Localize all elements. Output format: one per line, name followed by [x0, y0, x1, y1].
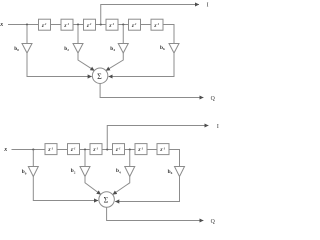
wire tap down to b0-bot — [32, 150, 34, 167]
svg-text:b4: b4 — [110, 46, 115, 52]
svg-text:b2: b2 — [64, 46, 69, 52]
multiplier b6 (triangle) — [169, 44, 179, 54]
svg-text:z-1: z-1 — [115, 146, 121, 153]
svg-text:z-1: z-1 — [153, 22, 159, 29]
wire S1 to Q output (top) — [100, 83, 203, 97]
delay U10 z^-1 — [113, 144, 125, 155]
wire U2 to U3 — [73, 24, 84, 26]
delay U8 z^-1 — [68, 144, 80, 155]
svg-text:z-1: z-1 — [108, 22, 114, 29]
multiplier b2-bot (triangle) — [80, 167, 90, 177]
svg-text:z-1: z-1 — [131, 22, 137, 29]
wire U12 output to b6 corner (bottom) — [169, 150, 180, 167]
delay U11 z^-1 — [135, 144, 147, 155]
wire input to U1 — [8, 24, 39, 26]
multiplier b4-bot (triangle) — [125, 167, 135, 177]
svg-text:I: I — [217, 124, 219, 130]
svg-text:b4: b4 — [116, 168, 121, 174]
delay U2 z^-1 — [61, 19, 73, 30]
wire input to U7 — [12, 149, 46, 151]
svg-text:Σ: Σ — [97, 72, 102, 81]
svg-text:z-1: z-1 — [70, 146, 76, 153]
wire I takeoff (top) — [101, 5, 199, 25]
svg-text:b2: b2 — [71, 168, 76, 174]
wire b4 to summer S2 — [113, 177, 130, 195]
svg-text:z-1: z-1 — [63, 22, 69, 29]
wire U6 output to b6 corner — [163, 25, 174, 44]
svg-text:Σ: Σ — [104, 196, 109, 205]
multiplier b0 (triangle) — [22, 44, 32, 54]
junction dot tap I-bot — [106, 148, 108, 150]
delay U6 z^-1 — [151, 19, 163, 30]
svg-text:z-1: z-1 — [86, 22, 92, 29]
svg-text:x: x — [3, 147, 7, 153]
junction dot tap b2-bot — [84, 148, 86, 150]
wire b0 to summer S2 — [33, 177, 98, 201]
junction dot tap b0 — [26, 23, 28, 25]
wire tap down to b2 — [77, 25, 79, 44]
svg-text:z-1: z-1 — [137, 146, 143, 153]
junction dot tap b2 — [77, 23, 79, 25]
svg-text:x: x — [0, 22, 3, 28]
wire U9 to U10 — [102, 149, 113, 151]
wire b4 to summer S1 — [106, 53, 123, 71]
junction dot tap I — [100, 23, 102, 25]
wire U8 to U9 — [80, 149, 91, 151]
svg-text:z-1: z-1 — [47, 146, 53, 153]
multiplier b2 (triangle) — [73, 44, 83, 54]
delay U7 z^-1 — [45, 144, 57, 155]
wire b2 to summer S2 — [85, 177, 101, 195]
junction dot tap b4 — [122, 23, 124, 25]
delay U9 z^-1 — [90, 144, 102, 155]
svg-text:z-1: z-1 — [41, 22, 47, 29]
svg-text:b0: b0 — [22, 169, 27, 175]
svg-text:z-1: z-1 — [159, 146, 165, 153]
svg-text:Q: Q — [211, 96, 216, 102]
wire I takeoff (bottom) — [107, 126, 208, 150]
delay U3 z^-1 — [84, 19, 96, 30]
svg-text:b0: b0 — [14, 46, 19, 52]
svg-text:b6: b6 — [160, 45, 165, 51]
summer S2 sigma — [99, 192, 115, 208]
svg-text:I: I — [207, 2, 209, 8]
wire tap down to b4-bot — [129, 150, 131, 167]
wire U4 to U5 — [118, 24, 129, 26]
multiplier b4 (triangle) — [118, 44, 128, 54]
wire b6 to summer S1 — [109, 53, 174, 77]
wire b6 to summer S2 — [115, 177, 179, 202]
wire U3 to U4 — [96, 24, 107, 26]
summer S1 sigma — [92, 68, 108, 84]
wire b0 to summer S1 — [27, 53, 92, 77]
svg-text:b6: b6 — [168, 169, 173, 175]
multiplier b6-bot (triangle) — [175, 167, 185, 177]
wire U5 to U6 — [141, 24, 152, 26]
junction dot tap b4-bot — [129, 148, 131, 150]
svg-text:Q: Q — [211, 219, 216, 225]
svg-text:z-1: z-1 — [92, 146, 98, 153]
wire tap down to b0 — [26, 25, 28, 44]
multiplier b0-bot (triangle) — [28, 167, 38, 177]
wire b2 to summer S1 — [78, 53, 94, 71]
delay U4 z^-1 — [106, 19, 118, 30]
delay U5 z^-1 — [129, 19, 141, 30]
junction dot tap b0-bot — [32, 148, 34, 150]
wire tap down to b4 — [122, 25, 124, 44]
wire U10 to U11 — [125, 149, 136, 151]
wire U7 to U8 — [57, 149, 68, 151]
wire U1 to U2 — [51, 24, 62, 26]
wire tap down to b2-bot — [84, 150, 86, 167]
wire U11 to U12 — [147, 149, 157, 151]
wire S2 to Q output (bottom) — [107, 207, 204, 220]
delay U12 z^-1 — [157, 144, 169, 155]
delay U1 z^-1 — [39, 19, 51, 30]
